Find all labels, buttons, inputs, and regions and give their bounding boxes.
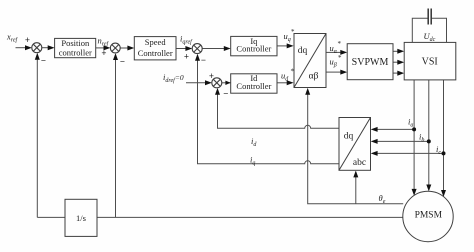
- svg-text:+: +: [184, 52, 189, 62]
- svg-text:1/s: 1/s: [76, 213, 86, 223]
- svg-text:−: −: [223, 89, 228, 99]
- svg-text:+: +: [25, 35, 30, 45]
- svg-text:uα: uα: [330, 43, 338, 55]
- svg-text:ud: ud: [281, 71, 289, 83]
- svg-text:*: *: [291, 28, 295, 36]
- svg-text:ic: ic: [436, 144, 441, 156]
- svg-text:nref: nref: [98, 36, 110, 48]
- svg-text:VSI: VSI: [422, 57, 438, 68]
- svg-text:Controller: Controller: [236, 44, 271, 54]
- svg-text:Controller: Controller: [138, 48, 173, 58]
- svg-text:abc: abc: [353, 158, 366, 168]
- svg-text:dq: dq: [298, 46, 308, 56]
- svg-text:controller: controller: [59, 48, 92, 58]
- svg-text:−: −: [120, 57, 125, 67]
- svg-text:Position: Position: [61, 38, 90, 48]
- svg-text:−: −: [41, 56, 46, 66]
- svg-text:+: +: [101, 48, 106, 58]
- svg-text:*: *: [338, 54, 342, 62]
- svg-text:iqref: iqref: [180, 34, 193, 46]
- svg-text:*: *: [291, 68, 295, 76]
- svg-text:dq: dq: [344, 132, 354, 142]
- svg-text:*: *: [338, 40, 342, 48]
- svg-text:uβ: uβ: [330, 57, 337, 69]
- svg-text:PMSM: PMSM: [415, 210, 443, 220]
- svg-text:uq: uq: [284, 31, 291, 43]
- svg-text:Controller: Controller: [236, 81, 271, 91]
- svg-text:Speed: Speed: [145, 37, 167, 47]
- svg-text:Udc: Udc: [424, 31, 436, 43]
- svg-text:idref=0: idref=0: [163, 72, 184, 84]
- svg-text:+: +: [209, 71, 214, 81]
- svg-text:ia: ia: [408, 117, 413, 129]
- svg-text:id: id: [251, 136, 257, 148]
- svg-text:iq: iq: [250, 155, 255, 167]
- svg-text:xref: xref: [6, 32, 19, 44]
- svg-text:αβ: αβ: [309, 72, 319, 82]
- svg-text:−: −: [201, 55, 206, 65]
- svg-text:SVPWM: SVPWM: [352, 57, 389, 68]
